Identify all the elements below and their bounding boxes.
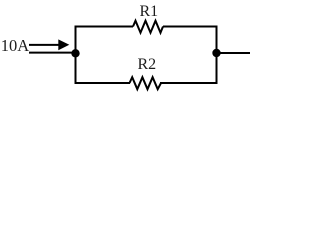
wire: source lead into node A: [29, 52, 77, 54]
svg-text:10A: 10A: [1, 36, 30, 55]
svg-text:R2: R2: [138, 56, 157, 73]
arrowhead: [58, 39, 69, 50]
resistor R1 zigzag: [133, 21, 163, 33]
svg-text:R1: R1: [140, 3, 159, 20]
resistor R2 zigzag: [130, 77, 162, 89]
wire: bottom-left segment to R2: [75, 82, 131, 84]
wire: output lead to the right: [217, 52, 251, 54]
current direction arrow line: [29, 44, 60, 46]
node B junction dot (right): [212, 49, 220, 57]
wire: top-left segment to R1: [75, 26, 134, 28]
wire: left vertical branch: [75, 26, 77, 85]
wire: right vertical branch: [216, 26, 218, 85]
wire: bottom-right segment from R2: [160, 82, 218, 84]
node A junction dot (left): [71, 49, 79, 57]
wire: top-right segment from R1: [163, 26, 218, 28]
